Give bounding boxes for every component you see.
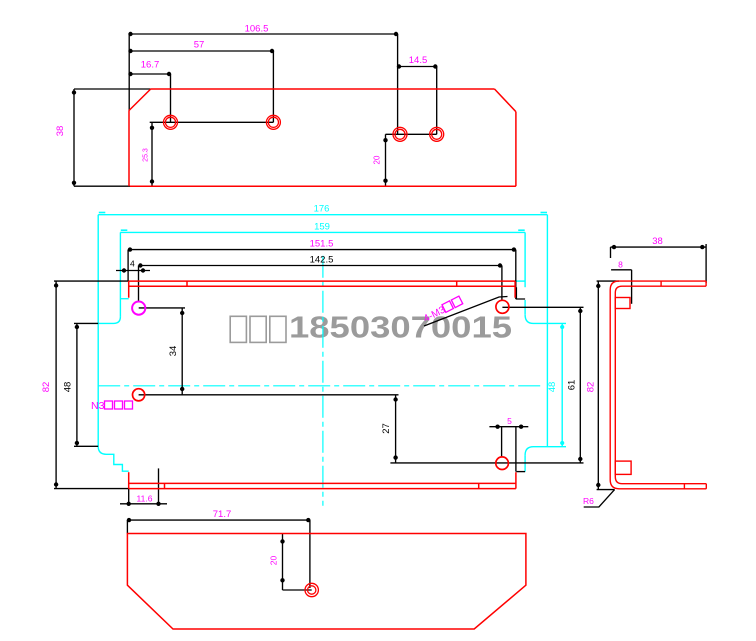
dot 142.5 R — [498, 263, 502, 267]
cyan dot 46R T — [560, 325, 564, 329]
middle: top edge segment right — [515, 280, 525, 282]
dot 38 B — [72, 181, 76, 185]
dot 34 T — [180, 311, 184, 315]
bottom: connector hole — [283, 589, 312, 591]
middle: notch BR step black — [516, 471, 525, 473]
dot 5 R — [519, 425, 523, 429]
middle: ext 142.5 right — [501, 266, 503, 301]
svg-text:8: 8 — [618, 259, 623, 269]
top view: dim 38 line — [73, 89, 75, 186]
top flange outer line — [129, 280, 515, 282]
dot 20 T — [383, 138, 387, 142]
middle: dim 61 line — [579, 307, 581, 463]
watermark tofu box 1 — [230, 316, 246, 342]
svg-text:N3: N3 — [91, 400, 105, 412]
dot 11.6 L — [127, 502, 131, 506]
middle: label 4-M3 studs — [422, 296, 464, 325]
dot b20 B — [280, 578, 284, 582]
bottom flange right cap — [515, 472, 517, 488]
top view: dim 16.7 line — [129, 73, 170, 75]
top view: top-right chamfer — [495, 89, 516, 112]
dot 61 B — [578, 457, 582, 461]
middle: notch BR fillet — [525, 447, 566, 456]
dot 71.7 R — [306, 518, 310, 522]
side: bottom tab — [615, 461, 631, 474]
side: bottom flange end cap — [705, 484, 707, 489]
dot 27 T — [393, 397, 397, 401]
side: dim 8 line — [611, 269, 632, 271]
bottom: dim 71.7 line — [127, 519, 310, 521]
top flange tick a — [186, 281, 188, 286]
svg-text:48: 48 — [547, 382, 558, 393]
middle: dim 142.5 line — [139, 265, 502, 267]
top view: ext hole4 — [436, 67, 438, 135]
dot 14.5 L — [397, 64, 401, 68]
middle: right edge + ext — [546, 215, 548, 447]
top view: top-left chamfer — [129, 89, 151, 111]
dot s82 T — [596, 284, 600, 288]
middle: red bend lines top — [129, 281, 516, 489]
svg-text:57: 57 — [194, 40, 205, 51]
middle: horizontal centerline — [98, 385, 541, 387]
cyan dot 46R B — [560, 441, 564, 445]
bottom view outline — [127, 534, 526, 630]
middle: dim 11.6 right ext — [158, 468, 160, 504]
side: dim 38 line — [611, 246, 707, 248]
top flange left cap — [128, 281, 130, 298]
middle: notch TL vertical + 159 ext — [119, 232, 121, 317]
svg-text:11.6: 11.6 — [137, 494, 153, 504]
middle: ext 5 right — [515, 427, 517, 472]
svg-text:4: 4 — [130, 259, 135, 269]
dot 11.6 R — [156, 502, 160, 506]
dot 106.5 R — [394, 32, 398, 36]
dot 16.7 L — [128, 72, 132, 76]
middle: ext 82 bottom — [54, 488, 129, 490]
middle: ext 151.5 right — [515, 250, 517, 299]
middle: dim 5 line — [489, 426, 528, 428]
bottom: dim 20 line — [282, 534, 284, 591]
cyan tick 176 L — [99, 212, 106, 214]
svg-text:38: 38 — [55, 126, 66, 137]
top view: dim 57 line — [129, 50, 273, 52]
dot b20 T — [280, 539, 284, 543]
top view: hole 3 — [393, 127, 407, 141]
middle: top connector 61 ext — [502, 306, 583, 308]
svg-text:82: 82 — [586, 382, 597, 393]
side: inner profile — [615, 286, 706, 484]
middle: ext 5 left — [501, 427, 503, 457]
top view: dim 14.5 line — [398, 66, 437, 68]
svg-text:25.3: 25.3 — [143, 148, 150, 162]
top view: dim 25.3 line — [151, 122, 153, 186]
bottom: ext 71.7 left — [126, 520, 128, 533]
dot 57 R — [270, 49, 274, 53]
bottom flange inner line — [129, 482, 516, 484]
svg-text:151.5: 151.5 — [310, 238, 334, 249]
dot s38 R — [700, 245, 704, 249]
top view: hole connector right pair — [386, 133, 437, 135]
top view: ext hole1 — [170, 74, 172, 122]
middle: connector from left red hole — [139, 394, 399, 396]
middle: notch TR fillet — [525, 315, 566, 324]
svg-text:27: 27 — [381, 423, 392, 434]
top view: left extension line — [128, 34, 130, 111]
middle: notch TR vertical — [524, 300, 526, 315]
svg-text:142.5: 142.5 — [310, 254, 334, 265]
top view: bottom edge black segment a — [240, 185, 272, 187]
svg-text:38: 38 — [652, 236, 663, 247]
bottom flange left cap — [128, 472, 130, 488]
svg-text:5: 5 — [507, 416, 512, 426]
dot 82L B — [54, 482, 58, 486]
cyan tick 159 L — [121, 229, 128, 231]
top view: top edge extension — [74, 88, 151, 90]
top view: bottom edge — [130, 185, 516, 187]
watermark tofu box 2 — [250, 316, 266, 342]
middle: vertical centerline — [322, 256, 324, 506]
middle: leader line M3 — [424, 297, 508, 327]
middle: dim 159 line — [120, 231, 525, 233]
dot s82 B — [596, 483, 600, 487]
middle: ext 46 bottom — [74, 445, 98, 447]
middle: ext 46 top — [74, 322, 98, 324]
middle: notch TR vertical 159 ext — [524, 232, 526, 287]
middle: ext 142.5 left / dim4 right — [138, 266, 140, 302]
top view: ext hole3 — [397, 34, 399, 134]
top view: part top edge — [151, 88, 495, 90]
side: outer profile — [610, 281, 706, 489]
middle: notch TR step black — [516, 287, 525, 299]
side: top flange tick — [660, 281, 662, 286]
middle: ext 151.5 left — [127, 250, 129, 281]
middle: top right red hole — [496, 300, 509, 313]
side: ext 82 top — [597, 280, 619, 282]
middle: magenta hole — [132, 302, 145, 315]
side: ext 8 right — [631, 270, 633, 304]
middle: left red hole — [133, 389, 145, 401]
middle: bottom connector 61 ext — [390, 462, 583, 464]
svg-text:176: 176 — [314, 204, 330, 215]
top flange tick b — [456, 281, 458, 286]
middle: notch TL chamfer — [98, 317, 120, 324]
dot 46L T — [75, 325, 79, 329]
top view: hole 1 — [164, 115, 178, 129]
top view: dim 20 line — [385, 134, 387, 186]
svg-text:48: 48 — [63, 382, 74, 393]
svg-text:16.7: 16.7 — [141, 60, 160, 71]
svg-text:R6: R6 — [583, 496, 594, 506]
middle: dim 11.6 line — [120, 503, 167, 505]
middle: dim 46 left line — [76, 323, 78, 446]
middle: dim 4 line — [116, 270, 150, 272]
dot 25.3 T — [150, 126, 154, 130]
middle: dim 151.5 line — [128, 249, 516, 251]
dot 82L T — [54, 283, 58, 287]
dot 57 L — [128, 49, 132, 53]
middle: dim 34 line — [181, 308, 183, 395]
dot 61 T — [578, 309, 582, 313]
dot 151.5 R — [512, 247, 516, 251]
top view: hole 2 — [266, 115, 280, 129]
middle: dim 82 left line — [55, 281, 57, 489]
middle: dim 27 line — [395, 395, 397, 463]
dot 38 T — [72, 90, 76, 94]
dot 25.3 B — [150, 179, 154, 183]
side: top flange end cap — [705, 281, 707, 286]
middle: dim 11.6 left ext — [128, 489, 130, 505]
middle: dim 176 line — [98, 214, 547, 216]
middle: bottom right red hole — [496, 457, 509, 470]
svg-text:106.5: 106.5 — [245, 24, 269, 35]
dot 16.7 R — [167, 72, 171, 76]
middle: left edge + ext — [97, 215, 99, 447]
bottom flange tick b — [478, 483, 480, 488]
cyan tick 176 R — [541, 212, 548, 214]
top flange right cap — [514, 281, 516, 298]
dot 5 L — [495, 425, 499, 429]
dot s38 L — [612, 245, 616, 249]
svg-text:71.7: 71.7 — [213, 509, 232, 520]
cyan tick 159 R — [518, 229, 525, 231]
svg-text:20: 20 — [269, 556, 279, 566]
dot 71.7 L — [127, 518, 131, 522]
middle: dim 46 right line — [561, 323, 563, 446]
top view: ext hole2 — [272, 51, 274, 122]
top view: hole connector left pair — [150, 121, 274, 123]
svg-text:61: 61 — [567, 380, 578, 391]
dot 151.5 L — [128, 247, 132, 251]
svg-text:34: 34 — [168, 346, 179, 357]
dot 106.5 L — [128, 32, 132, 36]
dot 46L B — [75, 441, 79, 445]
dot dim4 L — [122, 268, 126, 272]
dot 142.5 L — [138, 263, 142, 267]
bottom: ext 71.7 right — [309, 520, 311, 588]
svg-text:159: 159 — [314, 221, 330, 232]
side: ext 82 bottom — [597, 489, 615, 491]
dot 20 B — [383, 179, 387, 183]
bottom flange tick a — [164, 483, 166, 488]
bottom view hole — [305, 583, 318, 596]
top flange inner line — [129, 285, 515, 287]
svg-text:82: 82 — [41, 382, 52, 393]
middle: label N3 studs — [91, 400, 133, 412]
middle: notch BL fillet — [98, 446, 129, 471]
side: dim 82 line — [597, 281, 599, 490]
svg-text:20: 20 — [373, 155, 382, 164]
top view: right edge — [515, 112, 517, 187]
side: ext 38 right — [705, 244, 707, 283]
middle: ext 82 top — [54, 280, 129, 282]
top view: bottom edge black segment b — [380, 185, 397, 187]
dot dim4 R — [141, 268, 145, 272]
middle: notch BR vertical — [524, 455, 526, 471]
side: bottom flange tick — [683, 484, 685, 489]
top view: hole 4 — [430, 127, 444, 141]
dot 27 B — [393, 455, 397, 459]
side: top tab — [615, 298, 630, 309]
dot 34 B — [180, 387, 184, 391]
dot 14.5 R — [433, 64, 437, 68]
bottom flange outer line — [129, 488, 516, 490]
top view: dim 106.5 line — [129, 33, 397, 35]
top view: bottom edge extension — [74, 185, 130, 187]
watermark tofu box 3 — [270, 316, 286, 342]
svg-text:14.5: 14.5 — [409, 55, 428, 66]
middle: connector from magenta hole — [139, 307, 185, 309]
middle: notch TL top h — [120, 298, 128, 300]
side: ext 38 left — [610, 247, 612, 258]
side: leader R6 — [584, 490, 615, 507]
top view: left edge — [128, 111, 130, 187]
